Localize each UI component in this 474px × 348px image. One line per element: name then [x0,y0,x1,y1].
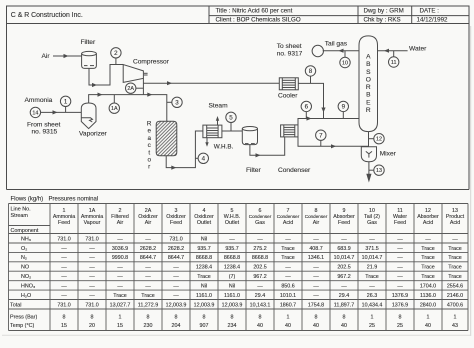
svg-text:Trace: Trace [281,255,294,261]
svg-text:no. 9317: no. 9317 [277,51,303,58]
svg-text:Trace: Trace [448,255,461,261]
arrow filter outlet [92,83,97,87]
svg-text:—: — [61,246,67,252]
svg-text:NH₃: NH₃ [21,236,31,242]
svg-text:2A: 2A [127,86,134,92]
svg-text:25: 25 [397,323,403,329]
svg-text:Trace: Trace [421,274,434,280]
svg-text:—: — [313,265,319,271]
drawing area border [6,24,8,190]
node 11 leader [393,51,395,57]
svg-text:A: A [366,54,371,61]
svg-text:—: — [61,255,67,261]
svg-text:1: 1 [287,315,290,321]
svg-text:12: 12 [376,137,382,143]
svg-text:Steam: Steam [209,103,229,110]
node 5 leader [230,122,232,131]
svg-text:Gas: Gas [255,220,265,226]
svg-text:1161.0: 1161.0 [224,293,240,299]
svg-text:—: — [452,236,458,242]
svg-text:—: — [285,274,291,280]
svg-text:Trace: Trace [448,265,461,271]
svg-text:Flows (kg/h): Flows (kg/h) [11,196,44,202]
svg-text:Dwg by : GRM: Dwg by : GRM [364,8,404,15]
svg-text:Outlet: Outlet [197,220,212,226]
svg-text:275.2: 275.2 [253,246,266,252]
svg-text:6: 6 [305,104,309,111]
svg-text:—: — [173,274,179,280]
svg-text:—: — [61,284,67,290]
svg-text:8668.8: 8668.8 [224,255,240,261]
absorber column C1 [359,36,378,132]
svg-text:Line No.: Line No. [11,207,31,213]
svg-text:—: — [173,265,179,271]
svg-text:Vaporizer: Vaporizer [79,131,108,138]
svg-text:no. 9315: no. 9315 [32,129,58,136]
svg-text:—: — [89,284,95,290]
svg-text:H₂O: H₂O [21,293,31,299]
svg-text:8644.7: 8644.7 [140,255,156,261]
node 1A [109,103,119,113]
svg-text:1: 1 [119,315,122,321]
wire vaporizer to reactor [89,95,167,122]
arrow mixed feed [147,93,152,97]
wire condenser acid line [298,137,369,146]
svg-text:8: 8 [259,315,262,321]
wire ammonia feed [40,111,81,113]
svg-text:NO₂: NO₂ [21,274,31,280]
svg-text:408.7: 408.7 [309,246,322,252]
svg-text:Condenser: Condenser [277,214,300,219]
svg-text:731.0: 731.0 [57,302,70,308]
svg-text:r: r [148,164,150,171]
svg-text:12,003.9: 12,003.9 [222,302,243,308]
svg-text:Trace: Trace [141,293,154,299]
svg-text:1161.0: 1161.0 [196,293,212,299]
node 2 [111,48,121,58]
svg-text:O₂: O₂ [21,246,27,252]
svg-text:S: S [366,69,371,76]
svg-text:967.2: 967.2 [337,274,350,280]
svg-text:—: — [313,236,319,242]
svg-text:Condenser: Condenser [278,167,311,174]
wire air feed arrow [53,55,82,57]
node 8 [305,66,315,76]
svg-text:Stream: Stream [11,213,29,219]
svg-text:Condenser: Condenser [249,214,272,219]
svg-text:15: 15 [117,323,123,329]
arrow gas to absorber 1 [307,116,312,120]
svg-text:1346.1: 1346.1 [308,255,324,261]
acid filter F2 [242,127,257,145]
wire cooler outlet down to gas line [298,83,323,118]
svg-text:a: a [147,135,151,142]
svg-text:—: — [257,284,263,290]
svg-text:Pressures nominal: Pressures nominal [49,196,99,202]
node 4 [198,153,208,163]
svg-text:8: 8 [91,315,94,321]
svg-text:Client : BOP Chemicals SILGO: Client : BOP Chemicals SILGO [216,17,301,24]
svg-text:Feed: Feed [394,220,406,226]
svg-text:—: — [117,284,123,290]
svg-text:—: — [257,236,263,242]
svg-text:12,003.9: 12,003.9 [194,302,215,308]
svg-text:Trace: Trace [113,293,126,299]
svg-text:371.5: 371.5 [365,246,378,252]
svg-text:Gas: Gas [367,220,377,226]
svg-text:R: R [366,107,371,114]
diagram labels [25,39,428,174]
label Reactor (vertical) [147,121,152,171]
svg-text:10,014.7: 10,014.7 [362,255,383,261]
svg-text:8: 8 [147,315,150,321]
svg-text:—: — [117,265,123,271]
mixer M1 [361,147,376,162]
svg-text:Trace: Trace [197,274,210,280]
svg-text:2628.2: 2628.2 [168,246,184,252]
svg-text:R: R [147,121,152,128]
node 2A [126,83,136,93]
node 12 leader [369,138,375,140]
wire product out [368,162,370,175]
vaporizer V1 [81,103,96,129]
node 7 [316,130,326,140]
svg-text:Water: Water [409,45,427,52]
node 2A leader [136,87,144,89]
svg-text:—: — [117,236,123,242]
svg-text:8668.8: 8668.8 [252,255,268,261]
svg-text:8: 8 [343,315,346,321]
flows table grid [9,204,469,331]
svg-text:3: 3 [175,100,179,107]
node 14 [30,107,40,117]
svg-text:—: — [397,274,403,280]
arrow vapour line [98,93,103,97]
arrow steam up [216,116,219,121]
wire filter to condenser [250,137,285,155]
svg-text:—: — [61,293,67,299]
wire absorber bottoms [368,132,370,147]
node 10 leader [344,51,346,58]
svg-text:1238.4: 1238.4 [196,265,212,271]
svg-text:—: — [285,236,291,242]
svg-text:N₂: N₂ [21,255,27,261]
svg-text:29.4: 29.4 [255,293,265,299]
svg-text:40: 40 [257,323,263,329]
svg-text:B: B [366,92,371,99]
node 5 [226,112,236,122]
svg-text:O: O [366,76,371,83]
svg-text:2: 2 [114,50,118,57]
svg-text:t: t [148,149,150,156]
svg-text:NO: NO [21,265,29,271]
svg-text:—: — [369,236,375,242]
svg-text:13: 13 [376,168,382,174]
node 11 [389,57,399,67]
node 3 [172,97,182,107]
svg-text:Trace: Trace [281,246,294,252]
svg-text:1376.9: 1376.9 [392,302,408,308]
svg-text:40: 40 [285,323,291,329]
svg-text:—: — [89,265,95,271]
page edge shadow bottom [2,334,471,336]
node 4 leader [195,157,198,159]
svg-text:40: 40 [341,323,347,329]
node 1 [60,96,70,106]
node 1 leader [65,106,67,112]
svg-text:15: 15 [61,323,67,329]
svg-text:29.4: 29.4 [339,293,349,299]
arrow filter2 outlet [256,153,261,157]
svg-text:43: 43 [452,323,458,329]
svg-text:7: 7 [319,132,323,139]
arrow reactor outlet [171,166,176,170]
arrow water left [384,49,389,53]
svg-text:2840.0: 2840.0 [420,302,436,308]
svg-text:R: R [366,84,371,91]
svg-text:1: 1 [427,315,430,321]
svg-text:e: e [147,128,151,135]
svg-text:Acid: Acid [423,220,433,226]
title block text [11,8,448,24]
svg-text:8: 8 [175,315,178,321]
svg-text:25: 25 [369,323,375,329]
svg-text:—: — [341,236,347,242]
svg-text:Air: Air [117,220,124,226]
svg-text:202.5: 202.5 [337,265,350,271]
svg-text:Acid: Acid [283,220,293,226]
svg-text:8668.8: 8668.8 [196,255,212,261]
svg-text:c: c [148,142,151,149]
svg-text:1010.1: 1010.1 [280,293,296,299]
svg-text:Trace: Trace [421,255,434,261]
svg-text:Nil: Nil [201,236,207,242]
svg-text:—: — [341,284,347,290]
svg-text:1376.9: 1376.9 [392,293,408,299]
node 7 leader [320,140,322,146]
svg-text:HNO₃: HNO₃ [21,284,35,290]
svg-text:3036.9: 3036.9 [112,246,128,252]
svg-text:4700.6: 4700.6 [447,302,463,308]
svg-text:1704.0: 1704.0 [420,284,436,290]
svg-text:Component: Component [11,228,39,234]
svg-text:Nil: Nil [201,284,207,290]
svg-text:5: 5 [229,115,233,122]
off-page connector to sheet 9317 [312,45,323,56]
node 8 leader [310,76,312,83]
svg-text:—: — [369,284,375,290]
arrow discharge line [167,81,172,85]
flows table caption [11,196,99,202]
node 12 [374,134,384,144]
svg-text:4: 4 [202,156,206,163]
node 9 [338,101,348,111]
svg-text:—: — [61,274,67,280]
svg-text:9: 9 [342,104,346,111]
svg-text:8: 8 [309,68,313,75]
svg-text:C & R Construction Inc.: C & R Construction Inc. [11,12,83,19]
node 3 leader [167,101,172,103]
svg-text:W.H.B.: W.H.B. [214,144,234,151]
stream number labels [32,50,396,174]
svg-text:10: 10 [342,61,348,67]
svg-text:—: — [313,293,319,299]
svg-text:E: E [366,99,371,106]
svg-text:8: 8 [399,315,402,321]
reactor R1 [156,121,177,156]
svg-text:—: — [229,236,235,242]
node 13 [374,165,384,175]
svg-text:11: 11 [391,60,397,66]
svg-text:14: 14 [32,110,38,116]
node 6 [301,101,311,111]
svg-text:Feed: Feed [58,220,70,226]
svg-text:—: — [397,284,403,290]
svg-text:From sheet: From sheet [27,122,61,129]
svg-text:—: — [117,274,123,280]
svg-text:Nil: Nil [229,284,235,290]
svg-text:8: 8 [315,315,318,321]
air filter F1 [82,51,97,68]
svg-text:10,434.4: 10,434.4 [362,302,383,308]
wire steam out [217,121,219,126]
svg-text:1: 1 [64,99,68,106]
svg-text:731.0: 731.0 [57,236,70,242]
svg-text:10,014.7: 10,014.7 [334,255,355,261]
svg-text:Title : Nitric Acid 60 per cen: Title : Nitric Acid 60 per cent [216,8,293,15]
svg-text:Filter: Filter [246,167,261,174]
svg-text:—: — [89,246,95,252]
svg-text:202.5: 202.5 [253,265,266,271]
svg-text:—: — [145,236,151,242]
svg-text:40: 40 [425,323,431,329]
svg-text:11,897.7: 11,897.7 [334,302,354,308]
svg-text:(7): (7) [229,274,236,280]
title block frame [7,6,470,24]
svg-text:26.3: 26.3 [367,293,377,299]
svg-text:Filter: Filter [81,39,96,46]
arrow ammonia feed [53,110,58,114]
condenser E2 [281,125,298,137]
label ABSORBER (vertical) [366,54,371,115]
svg-text:1860.7: 1860.7 [280,302,296,308]
svg-text:967.2: 967.2 [253,274,266,280]
page edge shadow right [470,26,472,336]
svg-text:—: — [89,255,95,261]
svg-text:Compressor: Compressor [133,59,170,66]
svg-text:Feed: Feed [170,220,182,226]
svg-text:To sheet: To sheet [277,43,302,50]
svg-text:731.0: 731.0 [85,302,98,308]
svg-text:731.0: 731.0 [169,236,182,242]
svg-text:Feed: Feed [338,220,350,226]
flows table text [10,207,465,330]
cooler E1 [279,78,298,90]
svg-text:Temp (°C): Temp (°C) [10,323,35,329]
stream number circles [30,48,399,176]
svg-text:850.6: 850.6 [281,284,294,290]
svg-text:Trace: Trace [448,246,461,252]
wire tail gas line [323,50,359,52]
svg-text:—: — [313,274,319,280]
svg-text:935.7: 935.7 [225,246,238,252]
svg-text:10,143.1: 10,143.1 [250,302,271,308]
svg-text:40: 40 [313,323,319,329]
node 1A leader [113,95,115,104]
svg-text:1136.0: 1136.0 [420,293,436,299]
svg-text:Mixer: Mixer [380,150,397,157]
waste heat boiler WHB [203,125,222,138]
svg-text:Trace: Trace [448,274,461,280]
svg-text:204: 204 [172,323,181,329]
svg-text:2628.2: 2628.2 [140,246,156,252]
node 10 [340,57,350,67]
svg-text:Ammonia: Ammonia [25,97,53,104]
svg-text:—: — [397,255,403,261]
svg-text:1A: 1A [111,106,118,112]
arrow blowdown down [205,142,208,147]
svg-text:Tail gas: Tail gas [325,41,348,48]
arrow air feed [64,54,69,58]
arrow tail gas left [339,49,344,53]
svg-text:12,003.9: 12,003.9 [166,302,187,308]
svg-text:683.9: 683.9 [337,246,350,252]
wire filter to compressor [89,65,123,86]
svg-text:Trace: Trace [365,274,378,280]
svg-text:—: — [285,265,291,271]
svg-text:Outlet: Outlet [225,220,240,226]
svg-text:935.7: 935.7 [197,246,210,252]
wire condenser gas to absorber [298,119,359,125]
svg-text:—: — [173,284,179,290]
svg-text:11,272.9: 11,272.9 [138,302,158,308]
svg-text:8: 8 [63,315,66,321]
svg-text:8: 8 [231,315,234,321]
wire WHB outlet to filter [222,130,242,132]
node 9 leader [342,111,344,118]
wire compressor discharge to cooler [143,82,279,84]
svg-text:9990.8: 9990.8 [112,255,128,261]
svg-text:230: 230 [144,323,153,329]
svg-text:1238.4: 1238.4 [224,265,240,271]
svg-text:2146.0: 2146.0 [447,293,463,299]
svg-text:1: 1 [371,315,374,321]
arrow product down [366,174,371,183]
svg-text:1754.8: 1754.8 [308,302,324,308]
svg-text:—: — [397,236,403,242]
wire water feed [378,50,408,52]
svg-text:—: — [61,265,67,271]
svg-text:Trace: Trace [421,265,434,271]
wire blowdown [206,138,208,143]
svg-text:Air: Air [145,220,152,226]
svg-text:14/12/1992: 14/12/1992 [417,17,449,24]
svg-text:—: — [145,284,151,290]
svg-text:—: — [173,293,179,299]
svg-text:o: o [147,157,151,164]
svg-text:—: — [89,293,95,299]
svg-text:Cooler: Cooler [278,92,298,99]
svg-text:Trace: Trace [421,246,434,252]
svg-text:—: — [89,274,95,280]
svg-text:731.0: 731.0 [85,236,98,242]
svg-text:—: — [313,284,319,290]
svg-text:8644.7: 8644.7 [168,255,184,261]
node 13 leader [369,169,374,171]
svg-text:20: 20 [89,323,95,329]
svg-text:Total: Total [10,302,21,308]
svg-text:907: 907 [200,323,209,329]
